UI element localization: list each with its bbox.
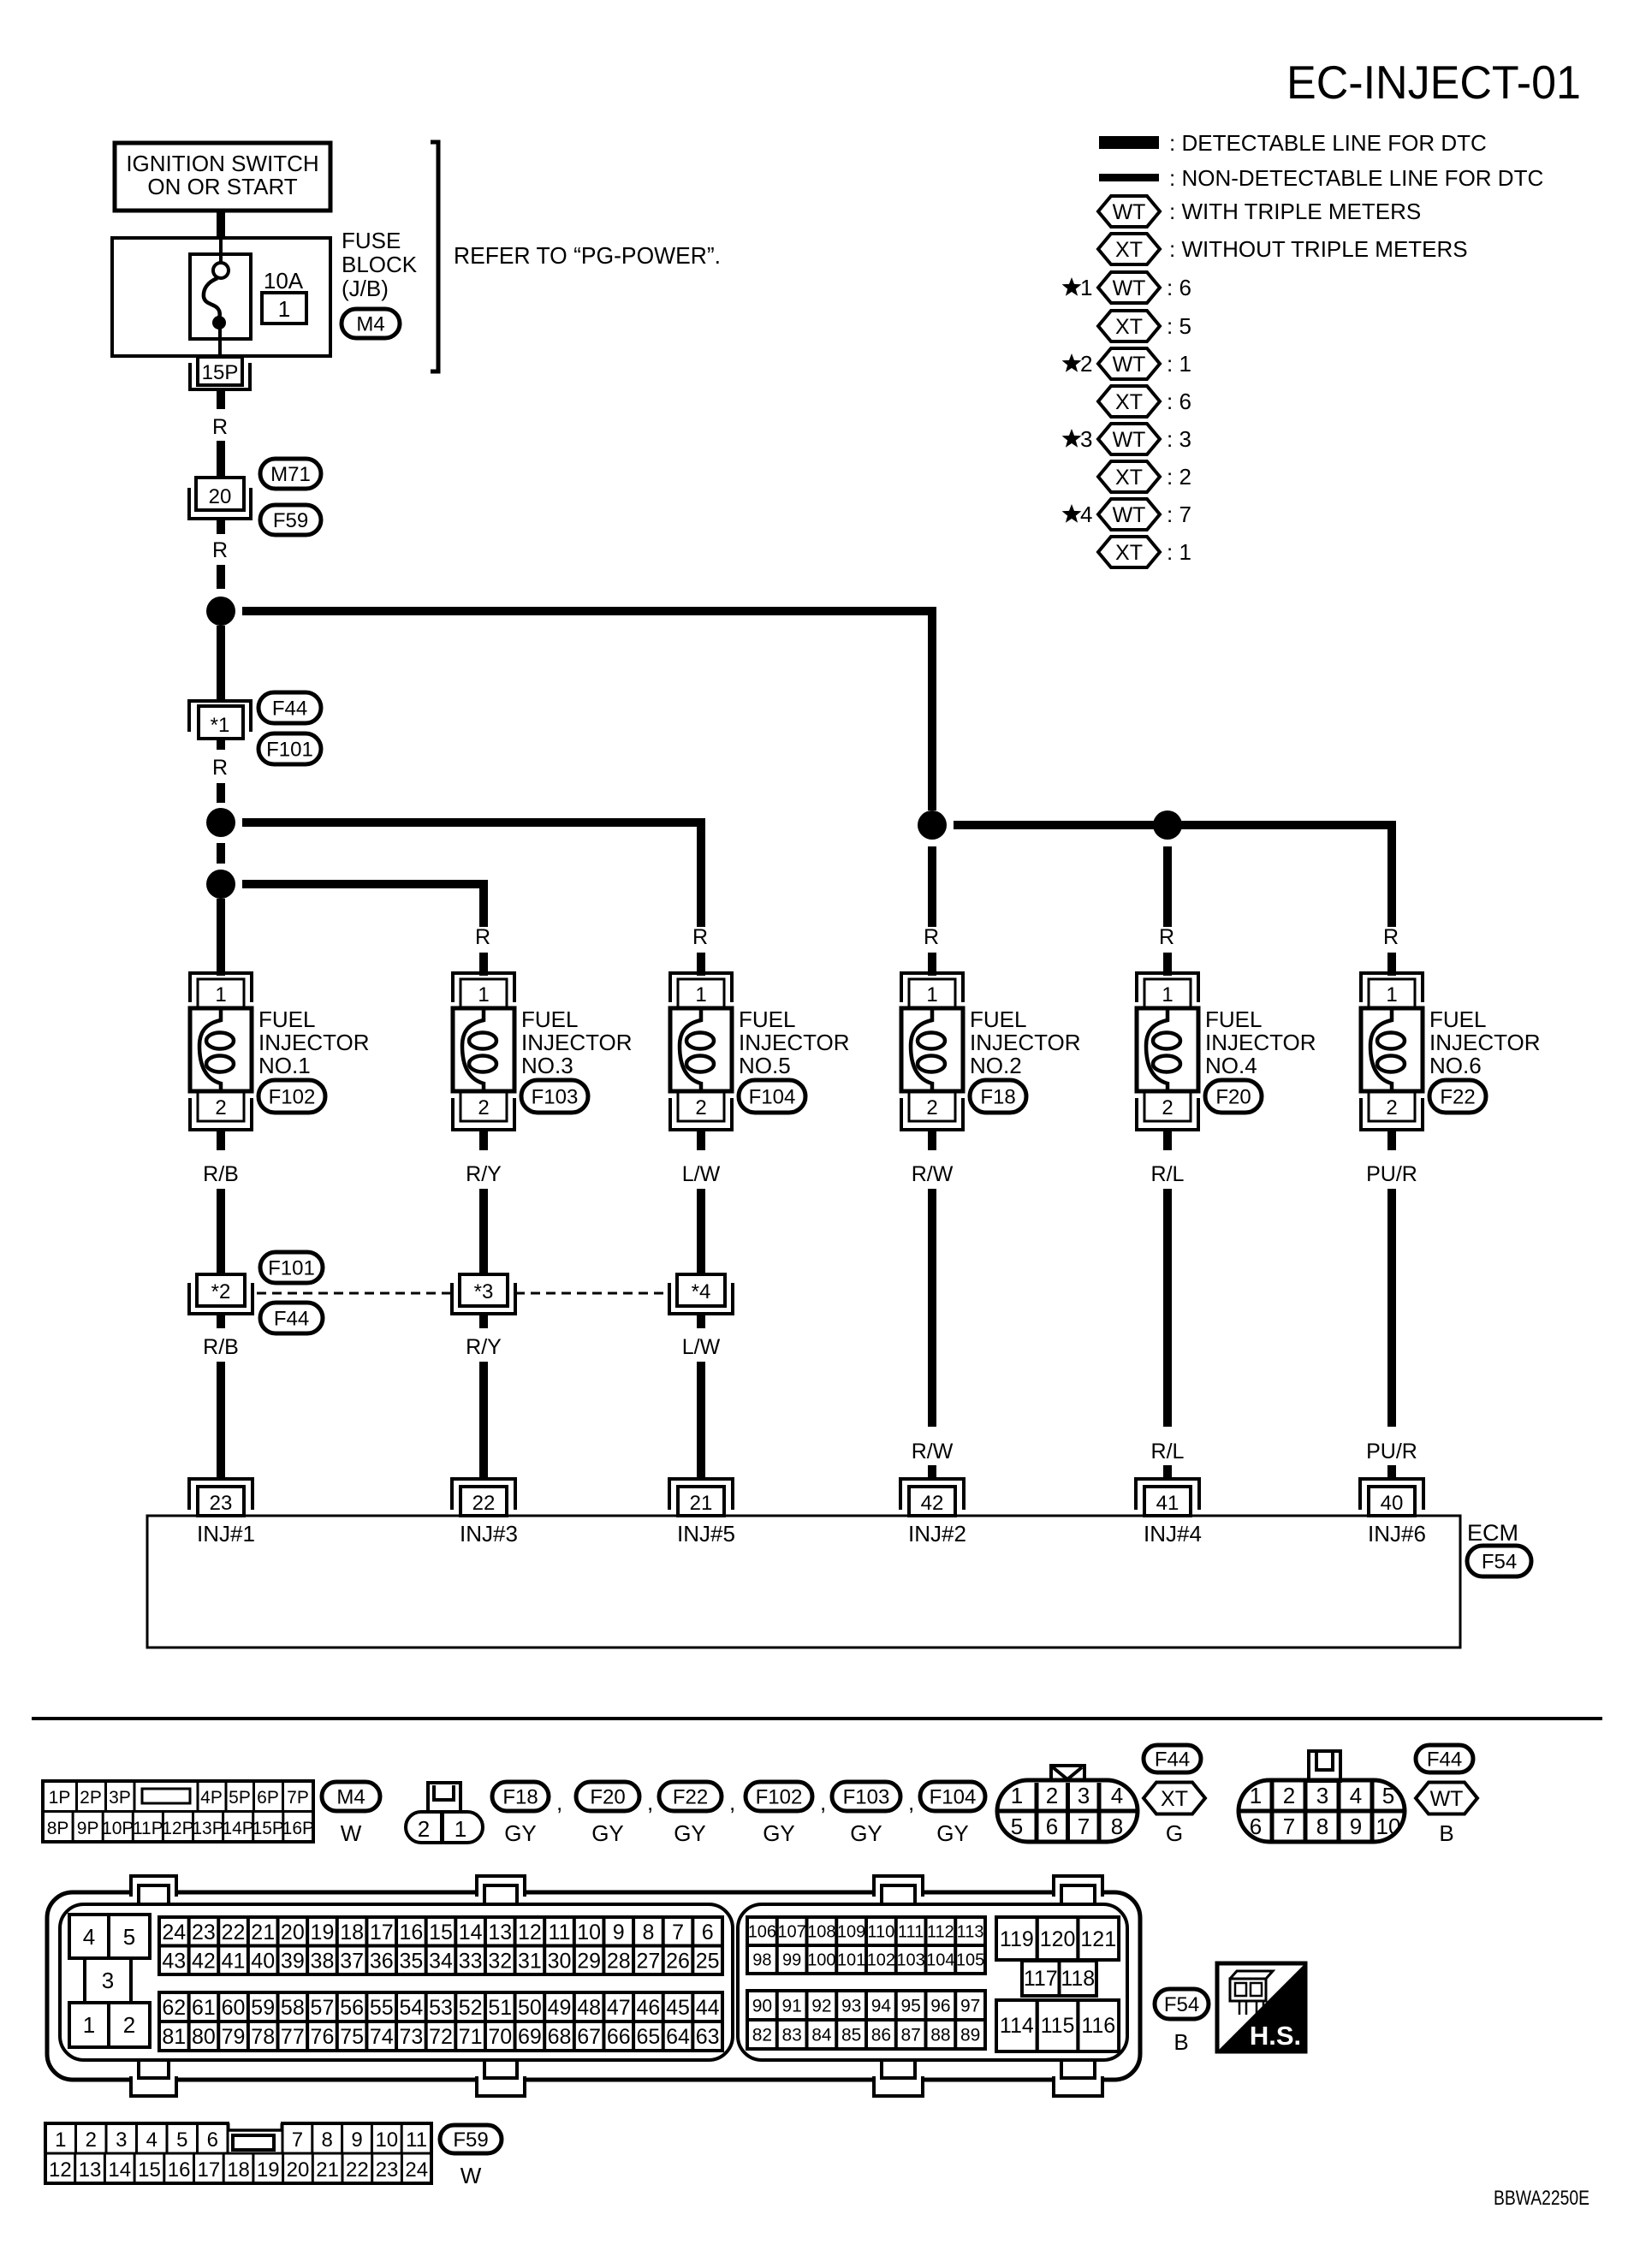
svg-text:H.S.: H.S. (1250, 2021, 1301, 2051)
svg-text:94: 94 (871, 1997, 892, 2016)
svg-text:F22: F22 (673, 1786, 708, 1809)
fuel injector NO.4 pin 2 box (1144, 1092, 1191, 1121)
ECM pin 21 connector (669, 1479, 733, 1510)
wire stub into ECM pin x=1089 (928, 1465, 936, 1480)
junction E (1153, 810, 1182, 840)
connector view F44 10-pin (1239, 1780, 1405, 1842)
svg-text:5: 5 (1382, 1783, 1394, 1808)
svg-text:NO.1: NO.1 (258, 1053, 311, 1078)
svg-text:FUEL: FUEL (1429, 1006, 1486, 1032)
legend note *1 marker (1062, 277, 1082, 296)
svg-text:28: 28 (607, 1949, 631, 1973)
wire horizontal run junction A to column 4 (242, 607, 936, 615)
svg-text:21: 21 (251, 1921, 275, 1944)
svg-text:R/Y: R/Y (466, 1162, 502, 1186)
svg-text:88: 88 (930, 2026, 950, 2045)
wire segment into *3 (479, 1189, 488, 1274)
connector F44 8-pin key flag (1051, 1766, 1084, 1780)
svg-text:26: 26 (666, 1949, 690, 1973)
ECM shell bottom tab x=1231 (1054, 2076, 1102, 2096)
svg-text:2: 2 (695, 1096, 706, 1119)
svg-text:34: 34 (429, 1949, 453, 1973)
svg-text:85: 85 (841, 2026, 861, 2045)
svg-text:38: 38 (311, 1949, 335, 1973)
fuel injector NO.1 pin 2 box (198, 1092, 244, 1121)
svg-text:56: 56 (340, 1996, 364, 2020)
wire stub into ECM pin x=1364 (1163, 1465, 1172, 1480)
svg-text:15: 15 (429, 1921, 453, 1944)
svg-text:42: 42 (192, 1949, 216, 1973)
refer-to bracket (431, 142, 438, 371)
svg-text:*2: *2 (211, 1280, 231, 1303)
svg-text:33: 33 (459, 1949, 483, 1973)
svg-text:1: 1 (215, 983, 226, 1006)
ECM pin 22 connector (452, 1479, 515, 1510)
svg-text:W: W (460, 2163, 482, 2188)
svg-text:58: 58 (281, 1996, 305, 2020)
svg-text:93: 93 (841, 1997, 861, 2016)
fuel injector NO.4 body (1137, 1008, 1198, 1091)
svg-text:10: 10 (577, 1921, 601, 1944)
svg-text:INJ#5: INJ#5 (677, 1521, 735, 1547)
svg-text:F22: F22 (1440, 1086, 1475, 1109)
junction C (206, 870, 235, 899)
connector F44 oval (top) (258, 692, 321, 723)
svg-text:: 5: : 5 (1167, 313, 1191, 339)
svg-text:GY: GY (591, 1820, 624, 1846)
svg-text:FUEL: FUEL (739, 1006, 795, 1032)
connector 20 box (196, 478, 244, 510)
ECM box (147, 1516, 1460, 1648)
wire stub below *2 (217, 1314, 225, 1328)
svg-text:98: 98 (752, 1951, 771, 1970)
svg-text:3: 3 (102, 1968, 114, 1993)
ECM shell bottom tab x=153 (131, 2076, 176, 2096)
svg-text:2: 2 (1283, 1783, 1295, 1808)
junction D (918, 810, 947, 840)
H.S. harness side icon (1217, 1963, 1305, 2051)
svg-text:15P: 15P (253, 1819, 284, 1838)
svg-text:13: 13 (488, 1921, 512, 1944)
ECM pin 41 connector (1136, 1479, 1199, 1510)
svg-text:*1: *1 (211, 714, 230, 737)
svg-text:1: 1 (1386, 983, 1397, 1006)
svg-text:WT: WT (1430, 1787, 1464, 1811)
connector *4 (677, 1274, 725, 1306)
svg-text:9: 9 (613, 1921, 625, 1944)
svg-text:: 2: : 2 (1167, 464, 1191, 490)
svg-text:3: 3 (1080, 426, 1092, 452)
wire stub into injector x=819 (697, 953, 705, 976)
svg-text:XT: XT (1115, 466, 1143, 490)
svg-text:M4: M4 (336, 1786, 365, 1809)
svg-text:14P: 14P (222, 1819, 253, 1838)
connector F59 oval (view) (440, 2125, 502, 2153)
svg-text:14: 14 (108, 2158, 131, 2182)
svg-text:50: 50 (518, 1996, 542, 2020)
wire dash to junction B (217, 783, 225, 803)
svg-text:1: 1 (455, 1816, 466, 1842)
wire vertical drop column 6 (1387, 821, 1396, 927)
svg-text:71: 71 (459, 2025, 483, 2049)
wire horizontal run junction D to column 6 (954, 821, 1396, 829)
fuel injector NO.6 pin 1 box (1369, 979, 1415, 1008)
svg-text:R: R (212, 538, 228, 562)
svg-text:4: 4 (1350, 1783, 1362, 1808)
svg-text:NO.6: NO.6 (1429, 1053, 1482, 1078)
svg-text:72: 72 (429, 2025, 453, 2049)
svg-text:22: 22 (346, 2158, 369, 2182)
svg-text:R/W: R/W (912, 1440, 954, 1464)
svg-text:*3: *3 (474, 1280, 494, 1303)
svg-text:NO.2: NO.2 (970, 1053, 1022, 1078)
fuel injector NO.5 connector shell bottom (670, 1098, 732, 1130)
svg-text:B: B (1174, 2029, 1188, 2055)
svg-text:45: 45 (666, 1996, 690, 2020)
connector M4 oval (342, 309, 400, 338)
svg-text:24: 24 (405, 2158, 428, 2182)
svg-text:FUEL: FUEL (258, 1006, 315, 1032)
ECM shell top tab x=1231 (1054, 1876, 1102, 1897)
ECM pin grid 114-116 (996, 2000, 1037, 2051)
svg-text:77: 77 (281, 2025, 305, 2049)
wire stub below injector x=819 (697, 1130, 705, 1150)
connector F44 10-pin key (1309, 1751, 1340, 1781)
svg-text:5: 5 (1011, 1814, 1023, 1839)
svg-text:46: 46 (636, 1996, 660, 2020)
svg-text:29: 29 (577, 1949, 601, 1973)
svg-text:10: 10 (1376, 1814, 1401, 1839)
svg-text:108: 108 (807, 1923, 835, 1942)
svg-text:XT: XT (1115, 238, 1143, 262)
fuel injector NO.2 body (901, 1008, 963, 1091)
svg-text:116: 116 (1081, 2014, 1115, 2038)
svg-text:103: 103 (896, 1951, 924, 1970)
svg-text:,: , (556, 1790, 562, 1815)
wire stub into ECM pin x=1626 (1387, 1465, 1396, 1480)
svg-text:F103: F103 (532, 1086, 579, 1109)
svg-text:2: 2 (418, 1816, 430, 1842)
svg-text:INJECTOR: INJECTOR (970, 1030, 1081, 1055)
wire stub below injector x=1364 (1163, 1130, 1172, 1150)
ECM connector shell inner left (60, 1904, 733, 2060)
svg-text:: NON-DETECTABLE LINE FOR DTC: : NON-DETECTABLE LINE FOR DTC (1169, 165, 1543, 191)
connector F101 oval (bottom) (260, 1252, 323, 1283)
svg-text:4P: 4P (200, 1788, 223, 1808)
fuel injector NO.5 connector shell top (670, 973, 732, 1002)
svg-text:3: 3 (1316, 1783, 1328, 1808)
svg-text:16: 16 (168, 2158, 191, 2182)
svg-text:GY: GY (850, 1820, 882, 1846)
svg-text:47: 47 (607, 1996, 631, 2020)
svg-text:97: 97 (960, 1997, 980, 2016)
svg-text:2: 2 (123, 2012, 135, 2038)
svg-text:M71: M71 (270, 463, 311, 486)
svg-text:1: 1 (278, 296, 290, 322)
svg-text:GY: GY (674, 1820, 706, 1846)
svg-text:117: 117 (1024, 1967, 1058, 1991)
svg-text:1: 1 (1080, 275, 1092, 300)
svg-text:FUSE: FUSE (342, 228, 401, 253)
wire stub below *1 (217, 739, 225, 750)
svg-text:2: 2 (215, 1096, 226, 1119)
svg-text:6: 6 (207, 2128, 218, 2152)
fuel injector NO.4 connector shell top (1137, 973, 1198, 1002)
svg-text:9: 9 (1350, 1814, 1362, 1839)
svg-text:96: 96 (930, 1997, 950, 2016)
svg-text:7: 7 (292, 2128, 303, 2152)
svg-text:25: 25 (696, 1949, 720, 1973)
svg-text:R: R (924, 925, 939, 949)
svg-text:2: 2 (1080, 351, 1092, 377)
fuel injector NO.3 pin 1 box (460, 979, 507, 1008)
svg-text:1: 1 (1250, 1783, 1262, 1808)
svg-text:R: R (692, 925, 708, 949)
svg-text:41: 41 (222, 1949, 246, 1973)
svg-text:62: 62 (162, 1996, 186, 2020)
svg-text:90: 90 (752, 1997, 772, 2016)
svg-text:12P: 12P (162, 1819, 193, 1838)
ECM pin grid 119-121 (996, 1917, 1037, 1960)
svg-text:R: R (1159, 925, 1174, 949)
svg-text:44: 44 (696, 1996, 720, 2020)
svg-text:27: 27 (636, 1949, 660, 1973)
ECM shell bottom tab x=557 (477, 2076, 525, 2096)
svg-text:,: , (820, 1790, 826, 1815)
svg-text:F102: F102 (756, 1786, 803, 1809)
ECM shell top tab x=1021 (874, 1876, 923, 1897)
connector F103 oval (521, 1080, 588, 1113)
connector F102 oval (258, 1080, 325, 1113)
fuel injector NO.5 body (670, 1008, 732, 1091)
legend detectable line sample (1099, 136, 1159, 149)
WT hexagon (view) (1416, 1783, 1477, 1814)
svg-text:INJ#3: INJ#3 (460, 1521, 518, 1547)
connector view F59 24-pin grid (45, 2123, 431, 2183)
svg-text:110: 110 (867, 1923, 894, 1942)
ECM pins 1-2 cells (69, 2003, 109, 2047)
svg-text:1: 1 (695, 983, 706, 1006)
svg-text:12: 12 (518, 1921, 542, 1944)
svg-text:L/W: L/W (682, 1162, 721, 1186)
svg-text:GY: GY (504, 1820, 537, 1846)
svg-text:80: 80 (192, 2025, 216, 2049)
svg-text:11P: 11P (133, 1819, 163, 1838)
connector F22 oval (view) (659, 1782, 722, 1811)
connector view 2-pin key (428, 1783, 460, 1812)
svg-text:78: 78 (251, 2025, 275, 2049)
svg-text:3P: 3P (109, 1788, 131, 1808)
svg-text:INJECTOR: INJECTOR (258, 1030, 370, 1055)
svg-text:107: 107 (777, 1923, 805, 1942)
svg-text:F54: F54 (1164, 1993, 1199, 2016)
svg-text:119: 119 (1000, 1927, 1034, 1951)
svg-text:65: 65 (636, 2025, 660, 2049)
fuse block M4 box (112, 238, 330, 356)
svg-text:R: R (475, 925, 490, 949)
connector view F44 8-pin (997, 1780, 1138, 1842)
svg-text:8: 8 (1316, 1814, 1328, 1839)
svg-text:F102: F102 (269, 1086, 316, 1109)
svg-text:B: B (1439, 1820, 1453, 1846)
legend XT : 1 hexagon (1098, 537, 1160, 567)
svg-text:4: 4 (1111, 1783, 1123, 1808)
svg-text:82: 82 (752, 2026, 772, 2045)
connector F18 oval (970, 1080, 1026, 1113)
svg-text:: DETECTABLE LINE FOR DTC: : DETECTABLE LINE FOR DTC (1169, 130, 1487, 156)
svg-text:XT: XT (1115, 315, 1143, 339)
svg-text:XT: XT (1161, 1787, 1188, 1811)
svg-text:INJECTOR: INJECTOR (1205, 1030, 1316, 1055)
wire vertical drop to junction D (928, 607, 936, 810)
wire ignition to fuse block (217, 211, 225, 240)
svg-text:42: 42 (921, 1492, 944, 1515)
legend XT : 5 hexagon (1098, 311, 1160, 341)
wire segment below injector to label x=1626 (1387, 1189, 1396, 1427)
wire stub below injector x=1626 (1387, 1130, 1396, 1150)
svg-text:120: 120 (1040, 1927, 1076, 1951)
svg-text:53: 53 (429, 1996, 453, 2020)
fuel injector NO.3 pin 2 box (460, 1092, 507, 1121)
fuel injector NO.3 body (453, 1008, 514, 1091)
svg-text:8: 8 (1111, 1814, 1123, 1839)
svg-text:2: 2 (86, 2128, 97, 2152)
svg-text:68: 68 (548, 2025, 572, 2049)
wire segment junction C to injector 1 (217, 899, 225, 976)
svg-text:91: 91 (781, 1997, 801, 2016)
svg-text:R/Y: R/Y (466, 1335, 502, 1359)
svg-text:F44: F44 (1427, 1748, 1462, 1772)
svg-text:20: 20 (209, 485, 232, 508)
svg-text:7: 7 (1283, 1814, 1295, 1839)
fuel injector NO.2 connector shell top (901, 973, 963, 1002)
svg-text:22: 22 (222, 1921, 246, 1944)
svg-text:,: , (729, 1790, 735, 1815)
svg-text:39: 39 (281, 1949, 305, 1973)
svg-text:69: 69 (518, 2025, 542, 2049)
svg-text:104: 104 (926, 1951, 954, 1970)
svg-text:84: 84 (811, 2026, 832, 2045)
svg-text:20: 20 (287, 2158, 310, 2182)
svg-text:81: 81 (162, 2025, 186, 2049)
svg-text:NO.4: NO.4 (1205, 1053, 1257, 1078)
ECM pin 3 cell (85, 1958, 131, 2003)
legend non-detectable line sample (1099, 174, 1159, 181)
svg-text:G: G (1166, 1820, 1183, 1846)
connector F104 oval (view) (920, 1782, 985, 1811)
svg-text:INJECTOR: INJECTOR (521, 1030, 633, 1055)
svg-text:WT: WT (1113, 276, 1146, 300)
svg-text:64: 64 (666, 2025, 690, 2049)
fuel injector NO.6 body (1361, 1008, 1423, 1091)
fuel injector NO.6 pin 2 box (1369, 1092, 1415, 1121)
svg-text:11: 11 (406, 2128, 427, 2152)
svg-text:67: 67 (577, 2025, 601, 2049)
wire segment below injector to label x=1089 (928, 1189, 936, 1427)
svg-text:: WITHOUT TRIPLE METERS: : WITHOUT TRIPLE METERS (1169, 236, 1468, 262)
svg-text:INJECTOR: INJECTOR (739, 1030, 850, 1055)
ECM pin grid 62-44 / 81-63 (159, 1992, 722, 2051)
connector F44 oval (WT view) (1416, 1745, 1473, 1772)
ECM pin grid 90-97 / 82-89 (747, 1991, 985, 2049)
junction B (206, 808, 235, 837)
separator line (32, 1717, 1602, 1720)
svg-text:4: 4 (83, 1924, 95, 1950)
legend *1 WT : 6 hexagon (1098, 272, 1160, 303)
svg-text:89: 89 (960, 2026, 980, 2045)
fuel injector NO.1 coil (199, 1008, 221, 1091)
svg-text:2: 2 (1046, 1783, 1058, 1808)
svg-text:8: 8 (642, 1921, 654, 1944)
svg-text:: 3: : 3 (1167, 426, 1191, 452)
svg-text:118: 118 (1061, 1967, 1095, 1991)
svg-text:37: 37 (340, 1949, 364, 1973)
svg-text:87: 87 (900, 2026, 920, 2045)
svg-text:10: 10 (375, 2128, 398, 2152)
svg-text:48: 48 (577, 1996, 601, 2020)
svg-text:NO.5: NO.5 (739, 1053, 791, 1078)
svg-text:3: 3 (1078, 1783, 1090, 1808)
svg-text:35: 35 (399, 1949, 423, 1973)
svg-text:: 1: : 1 (1167, 539, 1191, 565)
fuel injector NO.5 pin 2 box (678, 1092, 724, 1121)
svg-text:114: 114 (1000, 2014, 1034, 2038)
svg-text:23: 23 (210, 1492, 233, 1515)
wire segment below 15P (217, 389, 225, 409)
svg-text:9: 9 (351, 2128, 362, 2152)
svg-text:10A: 10A (264, 268, 304, 294)
fuel injector NO.2 coil (911, 1008, 932, 1091)
svg-text:55: 55 (370, 1996, 394, 2020)
svg-text:113: 113 (957, 1923, 984, 1942)
ECM pin 40 connector (1360, 1479, 1423, 1510)
svg-text:WT: WT (1113, 353, 1146, 377)
svg-text:13P: 13P (192, 1819, 223, 1838)
wire segment above 20 (217, 441, 225, 478)
svg-text:INJ#6: INJ#6 (1368, 1521, 1426, 1547)
connector view M4 16-pin grid (43, 1781, 313, 1842)
legend XT : 2 hexagon (1098, 461, 1160, 492)
legend *2 WT : 1 hexagon (1098, 348, 1160, 379)
svg-text:115: 115 (1041, 2014, 1075, 2038)
svg-text:40: 40 (251, 1949, 275, 1973)
svg-text:57: 57 (311, 1996, 335, 2020)
svg-text:7P: 7P (287, 1788, 309, 1808)
svg-text:19: 19 (311, 1921, 335, 1944)
svg-text:101: 101 (837, 1951, 865, 1970)
svg-text:109: 109 (837, 1923, 865, 1942)
svg-text:: 7: : 7 (1167, 502, 1191, 527)
svg-text:R: R (212, 756, 228, 780)
legend note *3 marker (1062, 429, 1082, 448)
svg-text:R/L: R/L (1151, 1440, 1185, 1464)
svg-text:40: 40 (1381, 1492, 1404, 1515)
connector *3 (460, 1274, 508, 1306)
svg-text:F104: F104 (749, 1086, 796, 1109)
svg-text:4: 4 (146, 2128, 157, 2152)
svg-text:86: 86 (871, 2026, 891, 2045)
svg-text:: 6: : 6 (1167, 389, 1191, 414)
fuel injector NO.4 coil (1146, 1008, 1168, 1091)
svg-text:F44: F44 (272, 698, 307, 721)
svg-text:18: 18 (340, 1921, 364, 1944)
ignition switch box (115, 143, 330, 211)
svg-text:5P: 5P (229, 1788, 251, 1808)
fuel injector NO.6 coil (1370, 1008, 1392, 1091)
svg-text:R/L: R/L (1151, 1162, 1185, 1186)
svg-text:NO.3: NO.3 (521, 1053, 573, 1078)
svg-text:70: 70 (488, 2025, 512, 2049)
